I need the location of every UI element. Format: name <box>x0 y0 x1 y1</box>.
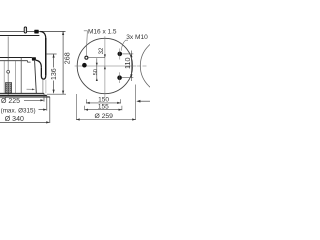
svg-text:3x M10: 3x M10 <box>126 34 148 41</box>
piston top corner block <box>32 57 36 60</box>
bellows top-right corner <box>40 32 46 39</box>
M16 air hole <box>85 56 88 59</box>
rubber bumper <box>6 83 12 94</box>
air fitting block <box>34 30 38 34</box>
dia259 dimension line <box>76 119 135 121</box>
stud on top plate <box>24 27 26 33</box>
piston skirt below fold <box>42 80 44 94</box>
lower stud extension <box>122 77 133 79</box>
svg-text:Ø 225: Ø 225 <box>1 98 20 105</box>
svg-text:136: 136 <box>51 68 58 80</box>
piston top line <box>0 57 32 59</box>
piston inner wall b <box>15 61 17 93</box>
bellows inner curve to piston <box>36 60 42 67</box>
268 dimension line <box>62 31 64 94</box>
side view: top plate upper line + 268 top extension <box>0 30 66 32</box>
lower stud tick <box>119 72 121 83</box>
50 dimension line <box>96 58 98 81</box>
268 bottom extension <box>47 93 66 95</box>
dia315 extension line <box>46 95 48 110</box>
M16 hole extension line <box>88 57 105 59</box>
top view circle <box>77 38 132 93</box>
32 dim arrows on centerline <box>104 54 106 57</box>
svg-text:50: 50 <box>93 69 99 75</box>
150 dim extensions <box>85 99 87 103</box>
dia340 extension line <box>49 97 51 123</box>
top view vertical centerline <box>104 36 106 97</box>
left M10 stud <box>82 63 87 68</box>
bellows inner wall <box>40 67 42 76</box>
155 dimension line <box>85 109 122 111</box>
svg-text:Ø 340: Ø 340 <box>5 116 24 123</box>
dia259 extensions <box>75 94 77 120</box>
piston step <box>28 61 31 62</box>
cropped dimension arrow pointing at second circle extension <box>140 100 151 102</box>
M16 label leader <box>84 31 88 56</box>
top view horizontal centerline <box>75 65 137 67</box>
150 dimension line <box>86 102 120 104</box>
bellows tangent below fold <box>45 80 47 94</box>
dia340 dimension line <box>0 121 49 123</box>
bellows right wall <box>45 38 47 76</box>
upper stud tick <box>119 49 121 60</box>
bottom plate line 2 <box>0 94 47 96</box>
svg-text:110: 110 <box>123 57 132 68</box>
lower right M10 stud <box>117 75 122 80</box>
small hole on centerline <box>7 70 10 73</box>
piston inner wall c <box>20 58 22 93</box>
dia225 dimension line <box>24 99 43 101</box>
centerline of side view <box>7 37 9 96</box>
svg-text:32: 32 <box>99 47 105 54</box>
bottom plate line 3 <box>0 96 50 98</box>
leader arrow inside piston <box>27 88 34 90</box>
bottom plate line 1 <box>0 92 44 94</box>
dia315 dimension line <box>39 109 46 111</box>
3x M10 leader <box>121 40 128 50</box>
piston outer wall sloped <box>35 61 37 94</box>
piston inner wall a <box>3 61 5 93</box>
side view: top plate lower line <box>0 35 39 37</box>
svg-text:(max. Ø315): (max. Ø315) <box>1 107 36 114</box>
136 top extension <box>47 53 57 55</box>
svg-text:M16 x 1.5: M16 x 1.5 <box>88 28 117 35</box>
second circle centerline <box>137 65 147 67</box>
svg-text:Ø 259: Ø 259 <box>94 113 113 120</box>
svg-text:155: 155 <box>98 103 109 110</box>
upper right M10 stud <box>118 52 123 57</box>
dia225 extension line <box>43 93 45 101</box>
155 dim extensions <box>84 106 86 110</box>
svg-text:268: 268 <box>62 52 71 64</box>
rolling lobe fold <box>41 76 45 80</box>
upper stud extension <box>122 53 133 55</box>
second circle (cropped at right edge) <box>140 38 196 94</box>
piston second line <box>0 60 28 62</box>
110 dimension line <box>130 51 132 82</box>
136 dimension line <box>53 54 55 68</box>
